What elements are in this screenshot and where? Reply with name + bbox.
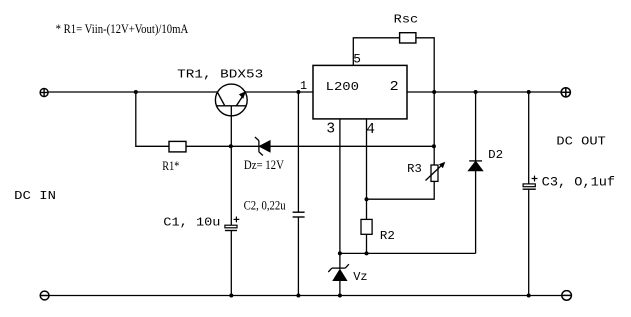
- wire base lead: [230, 106, 232, 225]
- wire C3 branch upper: [528, 92, 530, 184]
- node C3 junction: [527, 90, 531, 94]
- label R1*: [162, 159, 179, 173]
- node Vz ground: [338, 294, 342, 298]
- terminal ground right: [562, 291, 572, 301]
- resistor R3 variable: [426, 162, 446, 182]
- svg-text:1: 1: [300, 79, 307, 93]
- resistor R1: [169, 141, 186, 152]
- wire top rail left: [48, 91, 217, 93]
- pin 1: [300, 79, 307, 93]
- svg-text:Dz= 12V: Dz= 12V: [244, 158, 284, 172]
- label R2: [380, 229, 395, 243]
- label DC IN: [14, 189, 56, 203]
- wire transistor to L200 pin1: [245, 91, 313, 93]
- wire pin4 down: [366, 119, 368, 219]
- svg-text:R1*: R1*: [162, 159, 179, 173]
- capacitor C3: [523, 176, 538, 190]
- wire R2 bottom: [366, 234, 368, 253]
- pin 3: [326, 122, 335, 138]
- wire C2 branch upper: [297, 92, 299, 212]
- wire L200 pin2 to DC OUT: [407, 91, 561, 93]
- capacitor C1: [225, 217, 239, 231]
- node C3 ground: [527, 294, 531, 298]
- svg-text:L200: L200: [326, 80, 359, 94]
- label C1 value: [163, 216, 220, 230]
- wire bottom rail: [49, 295, 562, 297]
- pin 5: [353, 51, 361, 66]
- wire pin3 down: [339, 119, 341, 269]
- label R3: [407, 162, 422, 176]
- node Rsc junction: [432, 90, 436, 94]
- label C3 value: [542, 176, 615, 190]
- node R3 top junction: [432, 144, 436, 148]
- node C2 junction: [296, 90, 300, 94]
- wire R1 to Dz: [186, 145, 259, 147]
- svg-text:3: 3: [326, 122, 335, 138]
- svg-text:D2: D2: [488, 148, 503, 162]
- node junction top-left: [134, 90, 138, 94]
- svg-text:5: 5: [353, 51, 361, 66]
- node C1 ground: [229, 294, 233, 298]
- pin 2: [390, 79, 399, 95]
- node C2 ground: [296, 294, 300, 298]
- svg-text:C2, 0,22u: C2, 0,22u: [244, 198, 286, 212]
- wire pin5 to Rsc: [353, 38, 399, 66]
- label D2: [488, 148, 503, 162]
- terminal DC OUT +: [561, 88, 570, 97]
- wire R3 branch upper: [433, 92, 435, 165]
- wire Rsc to output: [416, 38, 434, 92]
- wire D2 lower: [475, 171, 477, 254]
- op-amp regulator U1 L200: [313, 65, 407, 119]
- svg-text:DC IN: DC IN: [14, 189, 56, 203]
- transistor Q1 TR1 BDX53: [215, 84, 247, 116]
- node D2 junction: [474, 90, 478, 94]
- node base junction: [229, 144, 233, 148]
- label TR1 BDX53: [177, 68, 263, 81]
- zener diode Dz: [255, 137, 270, 156]
- diode D2: [469, 161, 483, 171]
- svg-text:C3, O,1uf: C3, O,1uf: [542, 176, 615, 190]
- svg-text:Vz: Vz: [353, 270, 367, 284]
- formula note: [56, 22, 189, 36]
- wire Dz to R3 line: [270, 145, 434, 147]
- node R3-R2 junction: [365, 197, 369, 201]
- label C2 value: [244, 198, 286, 212]
- resistor Rsc: [400, 33, 416, 43]
- label Dz value: [244, 158, 284, 172]
- wire R1 branch drop: [136, 92, 169, 146]
- svg-text:DC OUT: DC OUT: [556, 135, 605, 149]
- label L200: [326, 80, 359, 94]
- svg-text:R3: R3: [407, 162, 422, 176]
- terminal ground left: [40, 291, 49, 300]
- wire Vz to rail: [339, 280, 341, 295]
- svg-text:TR1, BDX53: TR1, BDX53: [177, 68, 263, 81]
- label Vz: [353, 270, 367, 284]
- node R2 mid junction: [365, 251, 369, 255]
- resistor R2: [361, 219, 372, 234]
- pin 4: [366, 122, 375, 138]
- wire C2 branch lower: [297, 217, 299, 296]
- svg-text:4: 4: [366, 122, 375, 138]
- wire R3 bottom to pin4 line: [367, 181, 435, 199]
- svg-text:* R1= Viin-(12V+Vout)/10mA: * R1= Viin-(12V+Vout)/10mA: [56, 22, 189, 36]
- node pin3 mid junction: [338, 251, 342, 255]
- capacitor C2: [293, 212, 305, 217]
- svg-text:C1, 10u: C1, 10u: [163, 216, 220, 230]
- label Rsc: [394, 12, 419, 26]
- terminal DC IN +: [40, 89, 48, 97]
- svg-text:R2: R2: [380, 229, 395, 243]
- wire C3 lower: [528, 189, 530, 295]
- zener diode Vz: [328, 264, 349, 280]
- wire mid horizontal: [340, 252, 476, 254]
- wire D2 upper: [475, 92, 477, 161]
- svg-text:2: 2: [390, 79, 399, 95]
- svg-text:Rsc: Rsc: [394, 12, 419, 26]
- label DC OUT: [556, 135, 605, 149]
- wire C1 to ground rail: [230, 231, 232, 296]
